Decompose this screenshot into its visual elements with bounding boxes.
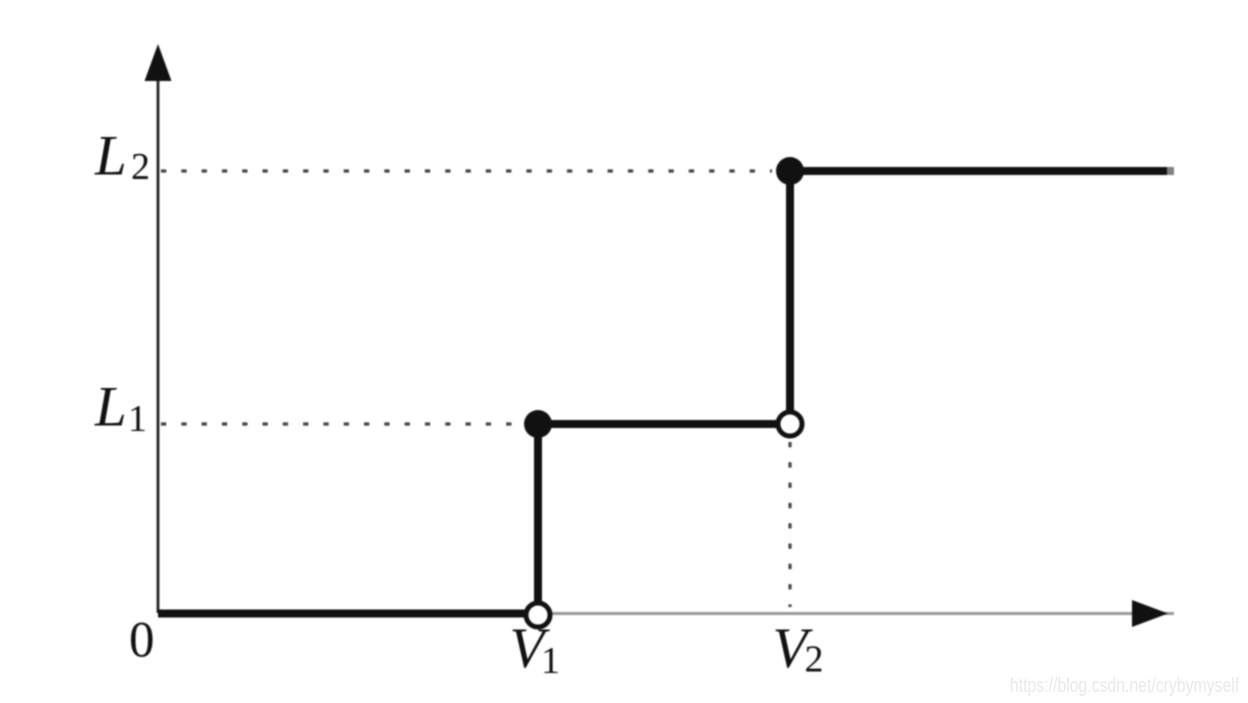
y-axis	[157, 78, 160, 613]
y-axis arrowhead	[145, 44, 172, 81]
step segment level L1	[538, 420, 790, 428]
svg-text:L: L	[94, 376, 127, 439]
svg-text:0: 0	[129, 613, 155, 669]
dotted guide V2	[788, 442, 791, 607]
watermark	[1010, 675, 1239, 698]
label L2	[94, 125, 824, 683]
dotted guide L1	[161, 422, 524, 425]
x-axis arrowhead	[1132, 600, 1168, 627]
open point (V2,L1)	[778, 412, 802, 436]
svg-text:1: 1	[541, 640, 560, 682]
filled point (V2,L2)	[776, 157, 804, 185]
x-axis	[158, 612, 1174, 615]
step riser V2	[786, 171, 794, 424]
step segment L2 gray tip	[1167, 167, 1174, 175]
svg-text:2: 2	[805, 639, 824, 681]
svg-text:2: 2	[131, 146, 150, 188]
svg-text:L: L	[94, 125, 127, 188]
step segment level 0	[158, 610, 538, 618]
open point (V1,0)	[526, 603, 550, 627]
step segment level L2	[790, 167, 1167, 175]
step riser V1	[534, 424, 542, 614]
filled point (V1,L1)	[524, 410, 552, 438]
svg-text:1: 1	[128, 398, 147, 440]
dotted guide L2	[161, 169, 772, 172]
